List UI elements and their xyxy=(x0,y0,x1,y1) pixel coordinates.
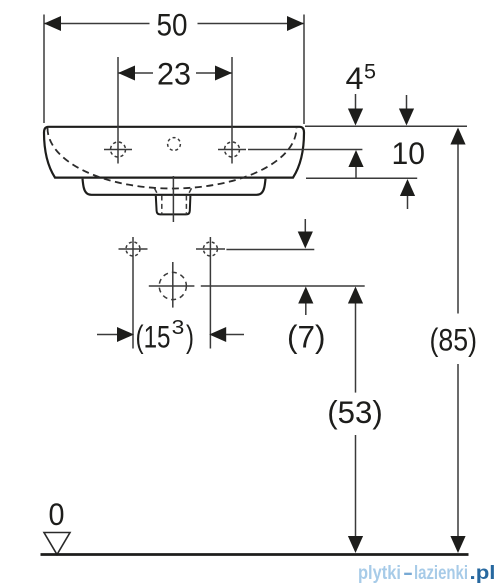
dimension 23 line xyxy=(118,72,232,74)
right tap hole crosshair xyxy=(218,149,246,151)
svg-text:.pl: .pl xyxy=(470,563,496,584)
overflow hole xyxy=(168,138,181,151)
dimension 50 extension line left xyxy=(43,15,45,124)
drain funnel dashed lines xyxy=(155,188,192,214)
svg-text:5: 5 xyxy=(364,61,376,84)
dimension 15.3 right arrow stem xyxy=(226,334,244,336)
bowl interior dashed arc xyxy=(48,128,297,188)
dimension 10 down arrow stem xyxy=(406,95,408,109)
dimension 15.3 extension line right xyxy=(209,237,211,349)
dimension 50 arrow right xyxy=(287,16,304,31)
siphon reference line xyxy=(201,285,365,287)
svg-text:10: 10 xyxy=(392,135,426,171)
dimension 50 extension line right xyxy=(303,15,305,125)
dimension 7 up arrow xyxy=(298,287,313,304)
dimension 85 up arrow xyxy=(450,128,465,145)
svg-text:lazienki: lazienki xyxy=(414,563,468,584)
dimension 10 down arrow xyxy=(399,109,414,126)
svg-text:(15: (15 xyxy=(136,319,171,355)
svg-text:0: 0 xyxy=(49,496,65,532)
dimension 7 down arrow stem xyxy=(304,219,306,233)
dimension 85 line upper xyxy=(457,145,459,314)
siphon dashed circle xyxy=(159,272,186,299)
svg-text:(53): (53) xyxy=(327,394,383,430)
dimension 23 arrow left xyxy=(118,66,135,81)
dimension 50 arrow left xyxy=(44,16,61,31)
floor line xyxy=(41,553,469,556)
left fixing hole xyxy=(126,242,140,256)
dimension 53 down arrow xyxy=(348,536,363,553)
zero level triangle symbol xyxy=(44,533,70,555)
dimension 53 line upper xyxy=(355,304,357,393)
dimension 10 up arrow xyxy=(400,179,415,196)
svg-text:23: 23 xyxy=(157,56,191,92)
dimension 4.5 up arrow stem xyxy=(355,167,357,178)
fixing holes reference line xyxy=(226,249,314,251)
left tap hole xyxy=(111,142,126,157)
dimension 85 line lower xyxy=(457,364,459,537)
dimension 53 up arrow xyxy=(348,287,363,304)
right fixing hole xyxy=(203,242,217,256)
dimension 15.3 left arrow stem xyxy=(97,334,118,336)
siphon crosshair horizontal xyxy=(149,285,195,287)
svg-text:(7): (7) xyxy=(287,319,326,355)
washbasin apron (lower body) xyxy=(83,179,266,195)
dimension 23 arrow right xyxy=(215,66,232,81)
svg-text:50: 50 xyxy=(157,7,188,43)
dimension 15.3 extension line left xyxy=(132,237,134,349)
dimension 10 up arrow stem xyxy=(407,196,409,209)
svg-text:(85): (85) xyxy=(430,322,478,358)
right fixing hole crosshair xyxy=(196,248,225,250)
drain axis line xyxy=(172,176,174,222)
svg-text:plytki: plytki xyxy=(358,563,401,584)
top reference line xyxy=(305,125,467,127)
right tap hole xyxy=(225,142,240,157)
dimension 23 extension line right xyxy=(231,57,233,164)
dimension 50 line xyxy=(44,23,304,25)
svg-text:4: 4 xyxy=(346,60,364,96)
svg-text:): ) xyxy=(186,319,194,355)
dimension 53 line lower xyxy=(355,435,357,537)
dimension 4.5 down arrow xyxy=(348,109,363,126)
dimension 15.3 right arrow xyxy=(209,327,226,342)
drain outlet box xyxy=(156,196,191,215)
left fixing hole crosshair xyxy=(119,248,148,250)
washbasin body outline xyxy=(44,127,304,178)
dimension 4.5 down arrow stem xyxy=(355,94,357,109)
dimension 4.5 up arrow xyxy=(348,150,363,167)
dimension 85 down arrow xyxy=(450,536,465,553)
dimension 7 up arrow stem xyxy=(305,304,307,316)
dimension 23 extension line left xyxy=(117,57,119,164)
left tap hole crosshair xyxy=(104,149,132,151)
svg-text:-: - xyxy=(403,563,413,584)
svg-text:3: 3 xyxy=(172,317,185,339)
tap axis reference line xyxy=(248,149,362,151)
dimension 7 down arrow xyxy=(298,232,313,249)
basin bottom reference line xyxy=(306,177,417,179)
dimension 15.3 left arrow xyxy=(117,327,134,342)
siphon crosshair vertical xyxy=(172,262,174,308)
